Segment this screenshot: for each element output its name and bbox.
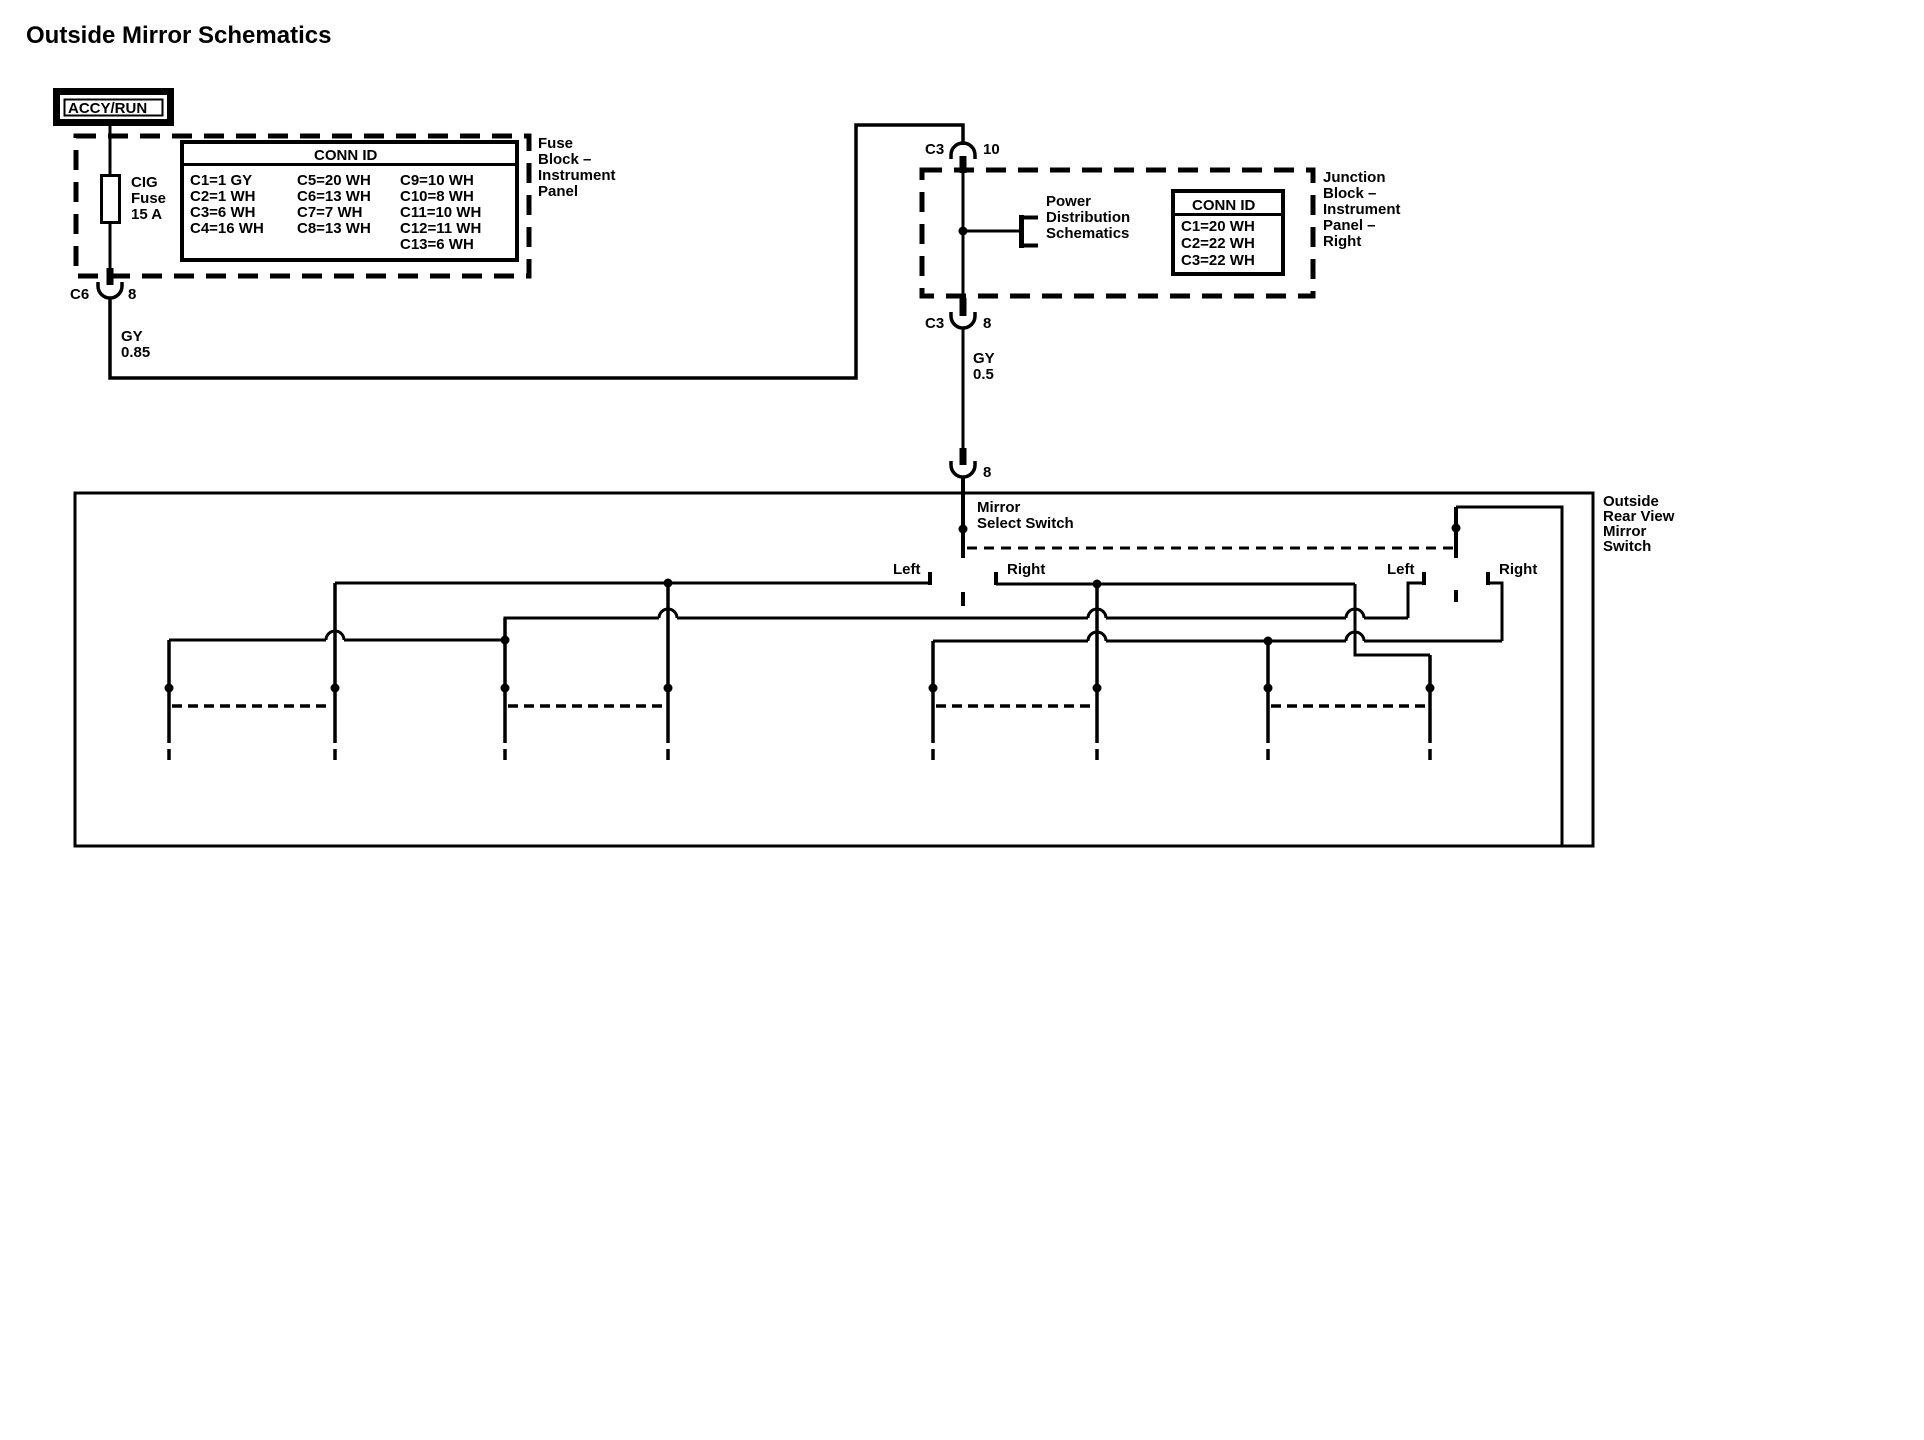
hop row C over blade 1b — [326, 631, 344, 640]
mechanical link select switch (dashed) — [967, 547, 1456, 550]
svg-text:C1=1 GY: C1=1 GY — [190, 172, 252, 189]
connector C6 pin 8 — [70, 268, 136, 303]
mechanical link blades 1a-1b (dashed) — [172, 704, 332, 708]
wire row A (select left feed) — [335, 582, 930, 585]
svg-text:C10=8 WH: C10=8 WH — [400, 188, 474, 205]
svg-text:CONN ID: CONN ID — [314, 147, 378, 164]
switch blade 1c — [501, 618, 510, 760]
switch blade 1d — [664, 583, 673, 760]
fuse CIG Fuse 15 A — [102, 176, 120, 223]
svg-text:C12=11 WH: C12=11 WH — [400, 220, 481, 237]
svg-text:Outside Mirror Schematics: Outside Mirror Schematics — [26, 22, 331, 49]
wire select wiper 1 feed — [961, 477, 965, 558]
wire select wiper 2 to pin 7 — [1456, 507, 1562, 846]
switch connector pin 8 — [951, 448, 991, 481]
reference bracket Power Distribution Schematics — [1021, 193, 1130, 248]
svg-text:10: 10 — [983, 141, 1000, 158]
wire to reference bracket — [963, 230, 1019, 233]
mechanical link blades 2a-2b (dashed) — [936, 704, 1094, 708]
node row C2 joins blade 2c — [1264, 637, 1273, 646]
CONN ID table (fuse block) — [182, 142, 517, 260]
svg-text:C6=13 WH: C6=13 WH — [297, 188, 371, 205]
svg-text:C11=10 WH: C11=10 WH — [400, 204, 481, 221]
svg-text:C7=7 WH: C7=7 WH — [297, 204, 362, 221]
wire inside junction block — [962, 170, 965, 300]
svg-text:CONN ID: CONN ID — [1192, 197, 1256, 214]
svg-text:8: 8 — [983, 464, 991, 481]
svg-text:C3: C3 — [925, 141, 944, 158]
junction block instrument panel right dashed box — [922, 170, 1313, 296]
svg-text:C5=20 WH: C5=20 WH — [297, 172, 371, 189]
switch blade wiper 1 open end — [961, 592, 965, 606]
svg-text:CIG: CIG — [131, 174, 158, 191]
connector C3 pin 10 — [925, 141, 1000, 173]
node wiper 1 dot — [959, 525, 968, 534]
svg-text:C2=1 WH: C2=1 WH — [190, 188, 255, 205]
svg-text:C4=16 WH: C4=16 WH — [190, 220, 264, 237]
wire row C2 (right group ground) — [933, 640, 1502, 643]
wire from C3-8 down to switch pin 8 — [962, 328, 965, 450]
wire row C (left group ground) — [169, 639, 505, 642]
svg-text:Panel –: Panel – — [1323, 217, 1376, 234]
svg-text:Right: Right — [1323, 233, 1361, 250]
svg-text:C1=20 WH: C1=20 WH — [1181, 218, 1255, 235]
svg-text:Instrument: Instrument — [538, 167, 616, 184]
wire row A2 (select right feed) — [996, 583, 1355, 586]
wire from C6 to C3-10 (power feed run) — [110, 125, 963, 378]
svg-text:C9=10 WH: C9=10 WH — [400, 172, 474, 189]
wire from ACCY/RUN to fuse — [109, 126, 112, 176]
hop row C2 over blade 2d feed — [1346, 632, 1364, 641]
svg-text:C6: C6 — [70, 286, 89, 303]
svg-text:Panel: Panel — [538, 183, 578, 200]
hop row B over blade 2d feed — [1346, 609, 1364, 618]
switch blade 2a — [929, 641, 938, 760]
svg-text:Switch: Switch — [1603, 538, 1651, 555]
svg-text:Right: Right — [1499, 561, 1537, 578]
svg-text:Junction: Junction — [1323, 169, 1386, 186]
node row A2 joins blade 2b — [1093, 580, 1102, 589]
svg-text:Fuse: Fuse — [131, 190, 166, 207]
mechanical link blades 2c-2d (dashed) — [1271, 704, 1427, 708]
hop row B over blade 2b — [1088, 609, 1106, 618]
svg-text:C3: C3 — [925, 315, 944, 332]
svg-text:Mirror: Mirror — [977, 499, 1021, 516]
svg-text:0.5: 0.5 — [973, 366, 994, 383]
svg-text:C13=6 WH: C13=6 WH — [400, 236, 474, 253]
svg-text:Select Switch: Select Switch — [977, 515, 1074, 532]
svg-text:Left: Left — [1387, 561, 1415, 578]
svg-text:ACCY/RUN: ACCY/RUN — [68, 100, 147, 117]
wire row B (ground return left mirror) — [505, 618, 1408, 640]
power source box ACCY/RUN — [57, 92, 171, 123]
svg-text:Schematics: Schematics — [1046, 225, 1129, 242]
svg-text:C3=6 WH: C3=6 WH — [190, 204, 255, 221]
svg-text:Left: Left — [893, 561, 921, 578]
svg-text:8: 8 — [128, 286, 136, 303]
CONN ID table (junction block right) — [1173, 191, 1283, 274]
hop row B over blade 1d — [659, 609, 677, 618]
svg-text:GY: GY — [121, 328, 143, 345]
wire select wiper 2 — [1454, 507, 1458, 558]
svg-text:C8=13 WH: C8=13 WH — [297, 220, 371, 237]
svg-text:C3=22 WH: C3=22 WH — [1181, 252, 1255, 269]
svg-text:Block –: Block – — [1323, 185, 1376, 202]
node junction dot — [959, 227, 968, 236]
switch blade wiper 2 open end — [1454, 590, 1458, 602]
node wiper 2 dot — [1452, 524, 1461, 533]
svg-text:Block –: Block – — [538, 151, 591, 168]
switch blade 1b — [331, 583, 340, 760]
svg-text:Instrument: Instrument — [1323, 201, 1401, 218]
node row C joins blade 1c — [501, 636, 510, 645]
wire from fuse to connector C6 — [109, 222, 112, 270]
svg-text:8: 8 — [983, 315, 991, 332]
connector C3 pin 8 — [925, 298, 991, 332]
svg-text:GY: GY — [973, 350, 995, 367]
svg-text:Fuse: Fuse — [538, 135, 573, 152]
svg-text:Distribution: Distribution — [1046, 209, 1130, 226]
mechanical link blades 1c-1d (dashed) — [508, 704, 665, 708]
switch blade 1a — [165, 640, 174, 760]
switch blade 2b — [1093, 584, 1102, 760]
outside rear view mirror switch box — [75, 493, 1593, 846]
switch blade 2c — [1264, 641, 1273, 760]
hop row C2 over blade 2b — [1088, 632, 1106, 641]
svg-text:Power: Power — [1046, 193, 1091, 210]
node row A joins blade 1d — [664, 579, 673, 588]
switch blade 2d with feed from row A2 — [1355, 584, 1435, 760]
fuse block dashed box — [76, 136, 529, 276]
svg-text:C2=22 WH: C2=22 WH — [1181, 235, 1255, 252]
svg-text:0.85: 0.85 — [121, 344, 150, 361]
svg-text:Right: Right — [1007, 561, 1045, 578]
svg-text:15 A: 15 A — [131, 206, 162, 223]
